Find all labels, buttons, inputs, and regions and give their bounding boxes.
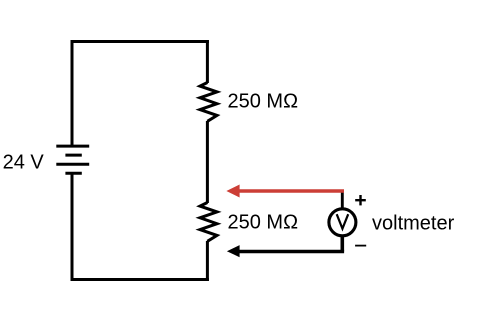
svg-text:250 MΩ: 250 MΩ [228, 91, 299, 113]
wire right middle [206, 121, 209, 203]
svg-text:voltmeter: voltmeter [372, 213, 455, 235]
wire left lower [71, 173, 74, 281]
svg-text:24 V: 24 V [3, 151, 45, 173]
wire bottom [71, 278, 209, 281]
wire right upper [206, 40, 209, 83]
black probe wire to bottom node [238, 250, 344, 254]
voltmeter top lead [341, 190, 344, 209]
voltmeter U1 [329, 209, 356, 236]
svg-text:250 MΩ: 250 MΩ [228, 212, 299, 234]
resistor R2 [200, 203, 217, 242]
resistor R1 [200, 83, 217, 122]
wire right lower [206, 241, 209, 281]
red probe wire to node between R1 and R2 [238, 189, 344, 193]
minus terminal label [355, 245, 366, 247]
black probe arrowhead [227, 245, 240, 257]
voltmeter V glyph [337, 214, 349, 228]
wire left upper [71, 40, 74, 146]
red probe arrowhead [226, 185, 239, 198]
voltmeter bottom lead [340, 237, 344, 252]
battery B1 [56, 146, 89, 173]
wire top [71, 40, 209, 43]
plus terminal label [355, 195, 366, 205]
